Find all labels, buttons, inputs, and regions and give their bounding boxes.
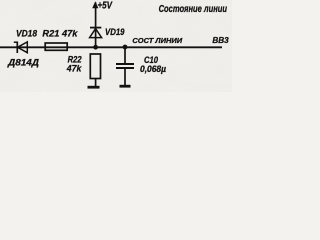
svg-text:VD19: VD19 [105, 27, 125, 38]
resistor R22 [90, 54, 100, 87]
caption Состояние линии [159, 4, 227, 15]
svg-text:VD18: VD18 [16, 28, 38, 39]
label VD19 [105, 27, 125, 38]
svg-text:+5V: +5V [98, 1, 114, 12]
label R22 [68, 54, 82, 64]
svg-text:Д814Д: Д814Д [7, 58, 39, 69]
+5V supply arrow [92, 1, 98, 8]
label 47k [66, 64, 82, 74]
resistor R21 [45, 43, 67, 50]
svg-text:СОСТ ЛИНИИ: СОСТ ЛИНИИ [132, 38, 183, 45]
svg-text:ВВ3: ВВ3 [212, 35, 229, 45]
node: junction of C10 branch [123, 45, 128, 50]
diode VD19 (clamp to +5V) [90, 28, 102, 38]
net label ВВ3 [212, 35, 229, 45]
wire: vertical branch to +5V [95, 3, 97, 48]
label R21 47k [42, 29, 78, 40]
label 0,068u [140, 64, 166, 74]
label +5V [98, 1, 114, 12]
wire: main horizontal line (line input to BB3) [0, 46, 222, 48]
ground for R22 [88, 86, 100, 89]
ground for C10 [120, 85, 131, 88]
svg-text:R21 47k: R21 47k [42, 29, 78, 40]
svg-text:0,068µ: 0,068µ [140, 64, 166, 74]
label Д814Д [7, 58, 39, 69]
node: junction of VD19 / R22 branch [93, 45, 98, 50]
label C10 [144, 55, 158, 65]
svg-text:47k: 47k [66, 64, 82, 74]
label VD18 [16, 28, 38, 39]
zener diode VD18 (Д814Д) on the wire [14, 42, 27, 54]
svg-text:Состояние линии: Состояние линии [159, 4, 227, 15]
net label сост линии [132, 38, 183, 45]
capacitor C10 [116, 48, 134, 86]
